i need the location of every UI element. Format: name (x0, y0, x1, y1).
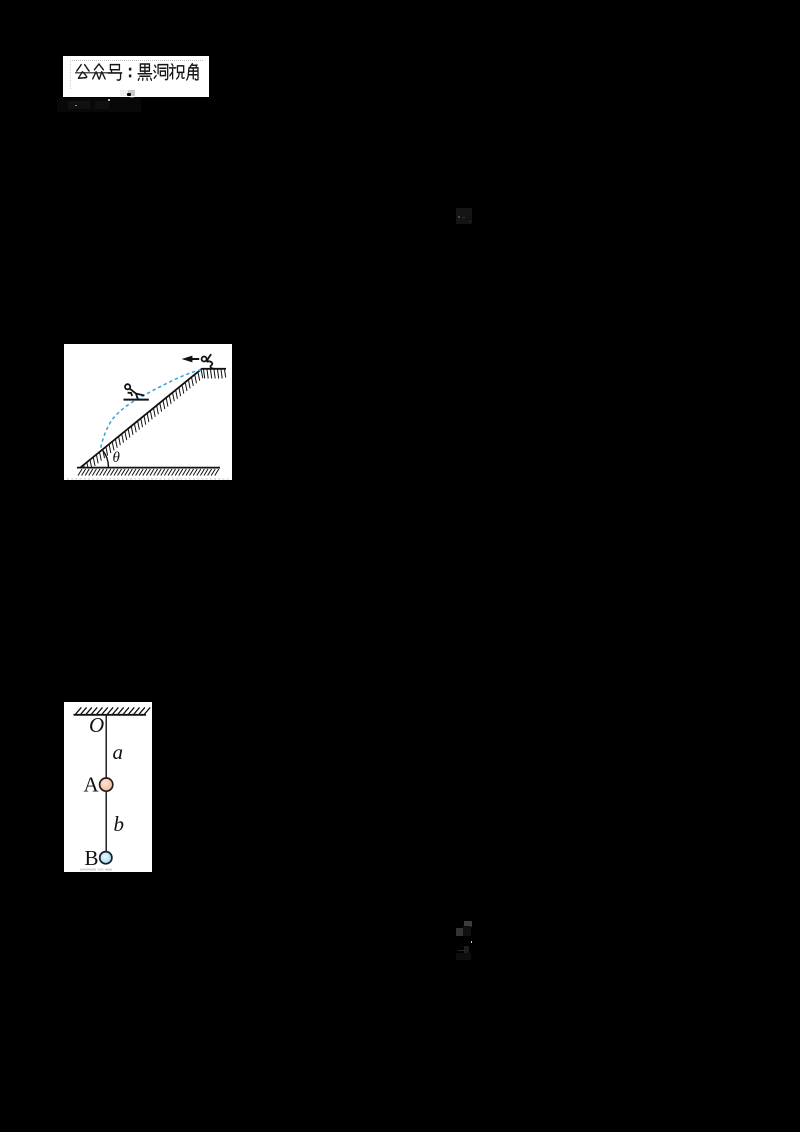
黑 (138, 64, 152, 80)
incline surface line (81, 369, 202, 468)
figure 2 : two balls on string from ceiling (64, 702, 152, 872)
视 (170, 64, 185, 79)
header white box with account name (63, 56, 209, 97)
velocity arrow (182, 356, 200, 363)
faint formula fragment (upper) (456, 208, 472, 225)
faint ghost text line under header (57, 98, 141, 112)
dashed trajectory curve (101, 370, 202, 449)
top skier with arrow (202, 354, 214, 368)
svg-text:a: a (113, 740, 124, 764)
ground line (77, 467, 220, 469)
svg-text:A: A (84, 773, 100, 797)
angle arc (102, 450, 108, 468)
： (129, 68, 131, 78)
string (105, 715, 107, 852)
ball B (100, 852, 112, 864)
strikethrough line (75, 72, 122, 74)
ground hatching (78, 469, 219, 476)
chinese caption strokes (63, 56, 208, 96)
plateau hatching (204, 370, 226, 379)
dotted inner border of header box (70, 60, 203, 89)
plateau line (201, 368, 226, 370)
ceiling line (74, 714, 147, 716)
svg-text:θ: θ (113, 450, 121, 466)
selection handle grey squares with cursor (120, 90, 128, 96)
众 (93, 64, 105, 79)
公 (77, 65, 89, 79)
洞 (154, 65, 168, 80)
incline hatching (84, 369, 203, 467)
faint formula fragment (lower) (464, 921, 472, 927)
号 (108, 65, 122, 81)
faint dotted border remnant at bottom (67, 478, 230, 480)
figure 1 : ski jump from incline (64, 344, 232, 480)
svg-text:b: b (114, 812, 125, 836)
mid-air skier (124, 384, 149, 399)
ceiling hatching (76, 707, 151, 714)
角 (187, 64, 198, 80)
svg-text:B: B (85, 846, 99, 870)
svg-text:O: O (89, 713, 104, 737)
faint grey dashes at bottom (80, 869, 96, 871)
